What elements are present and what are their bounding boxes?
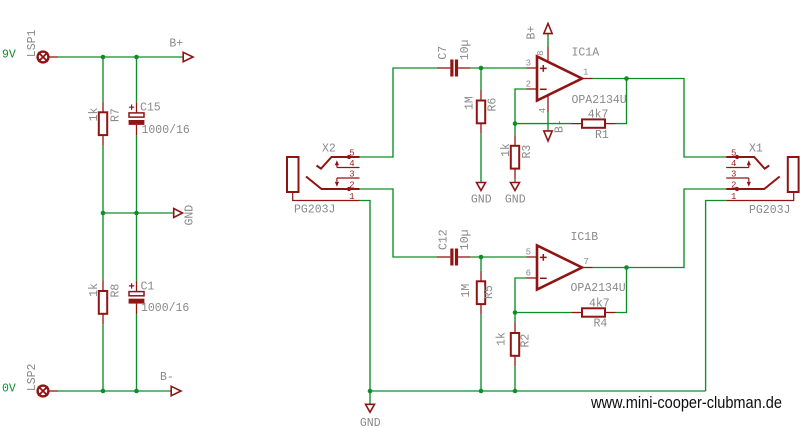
wire X1 pin1 to bus xyxy=(706,201,727,392)
X2 pin 2 ring contact xyxy=(306,177,360,190)
svg-text:X1: X1 xyxy=(749,143,763,156)
wire R4 to output xyxy=(616,268,627,313)
svg-text:R7: R7 xyxy=(109,108,122,122)
wire feedback to R1 xyxy=(515,123,572,125)
wire pin6 net xyxy=(515,278,527,313)
svg-text:OPA2134U: OPA2134U xyxy=(571,282,626,295)
svg-text:C12: C12 xyxy=(438,229,451,250)
resistor R7 xyxy=(99,102,107,146)
LSP1 solder pad xyxy=(38,52,58,63)
ground bus xyxy=(366,404,375,412)
svg-text:1: 1 xyxy=(731,192,736,202)
junction xyxy=(134,211,139,216)
B- supply arrow xyxy=(544,131,552,141)
wire C7 to junction to pin3 xyxy=(471,67,527,69)
wire junction down to R6 xyxy=(480,68,482,90)
svg-text:4k7: 4k7 xyxy=(589,297,610,310)
X2 pin 1 sleeve xyxy=(293,192,360,201)
X1 pin 4 xyxy=(726,160,751,167)
X1 pin 3 xyxy=(726,178,751,187)
X2 pin 3 xyxy=(335,178,360,187)
wire top rail xyxy=(58,56,184,58)
svg-text:R1: R1 xyxy=(595,129,609,142)
wire C1 column upper xyxy=(136,213,138,281)
wire pin8 to B+ xyxy=(547,34,549,47)
svg-text:8: 8 xyxy=(536,50,546,55)
ground R6 xyxy=(477,183,486,191)
svg-text:1k: 1k xyxy=(88,283,101,297)
svg-text:R8: R8 xyxy=(109,284,122,298)
B+ supply arrow xyxy=(544,24,552,34)
junction bus left xyxy=(368,389,373,394)
svg-text:1: 1 xyxy=(349,192,354,202)
svg-text:5: 5 xyxy=(526,248,531,258)
svg-text:IC1A: IC1A xyxy=(572,47,600,60)
junction bus R5 xyxy=(479,389,484,394)
wire C1 to bottom rail xyxy=(136,314,138,391)
svg-text:1000/16: 1000/16 xyxy=(141,302,189,315)
wire pin2 net xyxy=(515,89,527,124)
wire output IC1A xyxy=(593,79,727,158)
wire junction to R3 xyxy=(514,124,516,136)
wire output IC1B xyxy=(593,189,727,268)
svg-text:LSP2: LSP2 xyxy=(26,363,39,391)
svg-text:B+: B+ xyxy=(526,26,539,40)
wire R8 to bottom rail xyxy=(102,324,104,391)
wire X2 pin5 to C7 xyxy=(360,68,438,157)
junction xyxy=(479,66,484,71)
junction bus R2 xyxy=(513,389,518,394)
svg-text:PG203J: PG203J xyxy=(749,204,790,217)
svg-text:B-: B- xyxy=(160,371,174,384)
svg-text:R3: R3 xyxy=(521,145,534,159)
svg-text:10µ: 10µ xyxy=(459,39,472,60)
wire C15 column upper xyxy=(136,57,138,102)
X1 pin 1 sleeve xyxy=(726,192,794,201)
X1 pin 5 tip contact xyxy=(726,157,769,169)
op-amp IC1B xyxy=(527,245,593,289)
wire R5 to bus xyxy=(480,315,482,391)
wire bottom rail xyxy=(58,390,171,392)
wire bus to GND symbol xyxy=(369,391,371,404)
svg-text:C15: C15 xyxy=(140,102,161,115)
wire R1 to output xyxy=(616,79,627,124)
wire junction to R2 xyxy=(514,313,516,323)
svg-text:C1: C1 xyxy=(141,281,155,294)
capacitor C1 xyxy=(129,281,145,314)
wire R8 column upper xyxy=(102,213,104,281)
X1 pin 5 dot xyxy=(735,155,739,159)
svg-text:10µ: 10µ xyxy=(459,229,472,250)
wire ground bus xyxy=(370,390,706,392)
svg-text:1000/16: 1000/16 xyxy=(142,124,190,137)
svg-text:9V: 9V xyxy=(2,48,16,61)
svg-text:R5: R5 xyxy=(483,285,496,299)
svg-text:LSP1: LSP1 xyxy=(26,29,39,57)
junction xyxy=(101,211,106,216)
wire pin4 to B- xyxy=(547,112,549,131)
wire C12 to junction to pin5 xyxy=(471,256,527,258)
svg-text:4: 4 xyxy=(349,159,354,169)
svg-text:1k: 1k xyxy=(500,143,513,157)
svg-text:GND: GND xyxy=(360,417,381,428)
wire mid GND rail xyxy=(103,212,174,214)
junction xyxy=(134,389,139,394)
X2 pin 5 tip contact xyxy=(317,157,360,169)
junction output A xyxy=(624,76,629,81)
GND arrow left xyxy=(174,209,183,218)
connector X2 body xyxy=(287,157,299,192)
svg-text:PG203J: PG203J xyxy=(294,204,335,217)
svg-text:3: 3 xyxy=(731,170,736,180)
svg-text:1k: 1k xyxy=(496,332,509,346)
svg-text:7: 7 xyxy=(584,257,589,267)
svg-text:1: 1 xyxy=(583,68,588,78)
resistor R2 xyxy=(511,323,519,367)
resistor R1 xyxy=(572,119,616,127)
junction xyxy=(101,55,106,60)
svg-text:3: 3 xyxy=(526,59,531,69)
svg-text:4k7: 4k7 xyxy=(588,109,609,122)
svg-text:0V: 0V xyxy=(2,382,16,395)
svg-text:1M: 1M xyxy=(460,284,473,298)
resistor R8 xyxy=(99,281,107,325)
wire R3 to GND xyxy=(514,179,516,182)
svg-text:6: 6 xyxy=(526,269,531,279)
capacitor C12 xyxy=(437,249,471,266)
junction feedback B xyxy=(513,310,518,315)
wire X2 pin2 to C12 xyxy=(360,189,438,257)
junction xyxy=(479,255,484,260)
svg-text:R4: R4 xyxy=(594,318,608,331)
junction xyxy=(134,55,139,60)
capacitor C7 xyxy=(437,60,471,77)
svg-text:X2: X2 xyxy=(322,143,336,156)
svg-text:C7: C7 xyxy=(437,46,450,60)
svg-text:B-: B- xyxy=(553,119,566,133)
capacitor C15 xyxy=(129,102,145,135)
wire R2 to bus xyxy=(514,366,516,391)
wire R7 to mid rail xyxy=(102,146,104,213)
svg-text:4: 4 xyxy=(538,108,548,113)
wire C15 to mid rail xyxy=(136,135,138,213)
svg-text:OPA2134U: OPA2134U xyxy=(572,94,627,107)
X1 pin 2 ring contact xyxy=(726,177,780,190)
svg-text:R2: R2 xyxy=(520,334,533,348)
junction output B xyxy=(624,265,629,270)
svg-text:www.mini-cooper-clubman.de: www.mini-cooper-clubman.de xyxy=(590,394,782,412)
B- arrow xyxy=(171,386,181,395)
LSP2 solder pad xyxy=(38,386,58,397)
X1 pin 2 dot xyxy=(735,187,739,191)
X2 pin 5 dot xyxy=(347,155,351,159)
op-amp IC1A xyxy=(527,47,593,113)
wire X2 pin1 to bus xyxy=(360,201,371,392)
svg-text:GND: GND xyxy=(505,194,526,207)
junction xyxy=(101,389,106,394)
ground R3 xyxy=(511,183,520,191)
wire R6 to GND xyxy=(480,134,482,183)
resistor R6 xyxy=(477,90,485,134)
wire R7 column upper xyxy=(102,57,104,102)
svg-text:1M: 1M xyxy=(464,96,477,110)
resistor R3 xyxy=(511,135,519,179)
svg-text:R6: R6 xyxy=(487,98,500,112)
junction feedback A xyxy=(513,121,518,126)
resistor R4 xyxy=(572,308,616,316)
wire feedback to R4 xyxy=(515,312,572,314)
X2 pin 2 dot xyxy=(347,187,351,191)
resistor R5 xyxy=(477,271,485,315)
svg-text:B+: B+ xyxy=(169,37,183,50)
svg-text:2: 2 xyxy=(526,80,531,90)
B+ arrow xyxy=(183,52,193,61)
X2 pin 4 xyxy=(335,160,360,167)
svg-text:3: 3 xyxy=(349,170,354,180)
connector X1 body xyxy=(788,157,799,192)
svg-text:4: 4 xyxy=(731,159,736,169)
svg-text:IC1B: IC1B xyxy=(571,231,599,244)
wire junction down to R5 xyxy=(480,257,482,271)
svg-text:GND: GND xyxy=(183,205,196,226)
svg-text:1k: 1k xyxy=(88,107,101,121)
svg-text:GND: GND xyxy=(471,194,492,207)
